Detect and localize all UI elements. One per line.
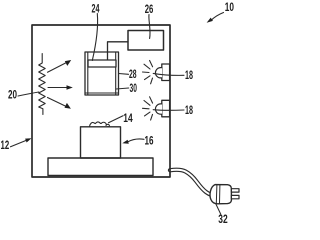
svg-text:16: 16 [145,135,154,147]
svg-text:18: 18 [185,105,193,117]
svg-text:10: 10 [225,2,234,14]
svg-text:24: 24 [92,4,100,16]
svg-text:14: 14 [123,113,133,125]
svg-text:30: 30 [130,83,137,95]
svg-text:28: 28 [129,69,137,81]
svg-text:26: 26 [145,4,154,16]
svg-text:20: 20 [8,90,17,102]
svg-text:32: 32 [218,214,227,224]
svg-text:12: 12 [1,140,10,152]
svg-text:18: 18 [185,70,193,82]
